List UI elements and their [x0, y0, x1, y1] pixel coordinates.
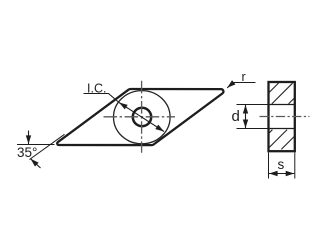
svg-text:s: s [278, 157, 285, 172]
I.C. leader line [84, 94, 120, 103]
s extension line left [268, 153, 270, 179]
svg-text:r: r [242, 70, 246, 84]
svg-text:I.C.: I.C. [87, 82, 106, 96]
35deg angled extension line [30, 134, 65, 159]
svg-text:35°: 35° [17, 145, 37, 160]
hatching top band [269, 83, 295, 104]
hatching bottom band [269, 130, 295, 150]
section centerline [260, 116, 310, 118]
35deg upper arrow [28, 131, 30, 145]
d extension line upper [237, 104, 269, 106]
I.C. inscribed circle [114, 91, 171, 144]
35deg lower arrow [31, 159, 41, 168]
insert outline (35deg rhombic insert, top view) [57, 89, 223, 145]
horizontal centerline [104, 116, 176, 118]
svg-text:d: d [232, 108, 240, 125]
r leader [227, 83, 255, 88]
section hole boundary upper [269, 104, 295, 106]
d dimension arrow [245, 105, 247, 128]
hole [133, 108, 151, 126]
vertical centerline [141, 81, 143, 153]
section hole boundary lower [269, 128, 295, 130]
section body [269, 82, 295, 151]
s dimension arrow [269, 173, 294, 175]
s extension line right [294, 153, 296, 179]
35deg horizontal extension line [17, 144, 55, 146]
d extension line lower [237, 128, 269, 130]
I.C. diameter arrow [119, 103, 164, 132]
